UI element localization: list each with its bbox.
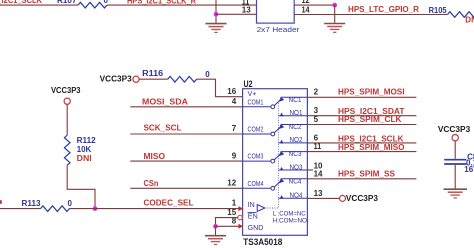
wire: [216, 13, 257, 15]
wire SCK_SCL: [130, 133, 242, 135]
ground: [324, 24, 345, 33]
net stub (clipped text, left edge): [0, 200, 2, 204]
svg-text:VCC3P3: VCC3P3: [51, 86, 81, 95]
svg-text:DNI: DNI: [465, 15, 474, 24]
svg-text:4: 4: [232, 97, 237, 106]
svg-text:16: 16: [227, 87, 236, 96]
svg-text:3: 3: [314, 106, 319, 115]
junction: [93, 206, 98, 211]
resistor R112 10K DNI: [64, 135, 70, 165]
switch 2 COM2: [243, 124, 308, 144]
svg-text:NO2: NO2: [290, 137, 303, 144]
svg-text:HPS_LTC_GPIO_R: HPS_LTC_GPIO_R: [348, 5, 419, 14]
wire NO1 pin 3: [307, 115, 416, 117]
wire NC1 pin 2: [307, 96, 416, 98]
svg-text:0: 0: [104, 0, 109, 5]
svg-text:R105: R105: [429, 6, 448, 15]
wire NO4 pin 13 to VCC: [307, 197, 339, 199]
buffer (control): [257, 205, 265, 212]
svg-text:COM4: COM4: [248, 179, 264, 188]
svg-text:14: 14: [314, 169, 323, 178]
capacitor C8: [444, 159, 466, 161]
svg-text:NC2: NC2: [289, 124, 302, 131]
svg-text:0: 0: [205, 70, 210, 79]
svg-text:R113: R113: [22, 199, 42, 208]
svg-text:IN: IN: [248, 200, 255, 209]
svg-text:COM1: COM1: [248, 97, 264, 106]
svg-text:DNI: DNI: [77, 154, 92, 163]
svg-text:GND: GND: [248, 223, 264, 232]
svg-text:14: 14: [302, 6, 310, 15]
wire NO2 pin 6: [307, 142, 416, 144]
pin 8 input arrow: [238, 224, 243, 229]
wire NC2 pin 5: [307, 124, 416, 126]
svg-text:MOSI_SDA: MOSI_SDA: [142, 97, 188, 106]
wire NC4 pin 14: [307, 178, 416, 180]
svg-text:HPS_SPIM_MISO: HPS_SPIM_MISO: [338, 143, 405, 152]
wire: [215, 0, 217, 23]
svg-text:HPS_SPIM_MOSI: HPS_SPIM_MOSI: [338, 88, 405, 97]
wire MISO: [130, 160, 242, 162]
wire to ground: [215, 226, 217, 235]
svg-text:COM2: COM2: [248, 125, 264, 134]
svg-text:R112: R112: [77, 136, 97, 145]
wire: [334, 5, 336, 23]
wire: [0, 208, 41, 210]
svg-text:11: 11: [314, 142, 322, 151]
svg-text:VCC3P3: VCC3P3: [438, 125, 471, 134]
pin 1 input arrow: [238, 206, 243, 211]
svg-text:NC1: NC1: [289, 97, 302, 104]
junction: [332, 3, 337, 8]
svg-text:VCC3P3: VCC3P3: [100, 74, 133, 83]
svg-text:2x7 Header: 2x7 Header: [257, 25, 300, 34]
svg-text:10K: 10K: [77, 145, 92, 154]
svg-text:16V: 16V: [464, 165, 474, 174]
ground: [206, 24, 227, 33]
svg-text:NO3: NO3: [290, 164, 303, 171]
wire: [107, 4, 257, 6]
svg-text:R116: R116: [142, 69, 164, 78]
svg-text:HPS_I2C1_SCLK: HPS_I2C1_SCLK: [0, 0, 42, 5]
svg-text:12: 12: [227, 179, 236, 188]
wire: [294, 14, 447, 16]
wire: [67, 165, 95, 208]
svg-text:13: 13: [314, 189, 323, 198]
svg-text:1: 1: [232, 199, 237, 208]
wire: [139, 78, 167, 80]
svg-text:NC4: NC4: [289, 178, 302, 185]
ground: [444, 189, 468, 198]
svg-text:H:COM=NO: H:COM=NO: [273, 218, 307, 225]
wire NC3 pin 11: [307, 151, 416, 153]
svg-text:VCC3P3: VCC3P3: [346, 194, 379, 203]
wire: [0, 4, 78, 6]
wire GND pin 8: [216, 225, 239, 227]
power VCC3P3 (pin 13): [340, 195, 346, 201]
svg-text:NO4: NO4: [290, 192, 303, 199]
svg-text:R107: R107: [57, 0, 77, 5]
svg-text:HPS_SPIM_CLK: HPS_SPIM_CLK: [338, 115, 402, 124]
switch 1 COM1: [243, 97, 308, 117]
svg-text:HPS_SPIM_SS: HPS_SPIM_SS: [338, 170, 396, 179]
svg-text:TS3A5018: TS3A5018: [243, 237, 282, 247]
junction: [214, 12, 219, 17]
svg-text:12: 12: [302, 0, 310, 5]
svg-text:5: 5: [314, 115, 319, 124]
wire: [197, 79, 243, 97]
header 2x7 box: [257, 0, 295, 23]
svg-text:L :COM=NC: L :COM=NC: [273, 211, 306, 218]
wire: [294, 4, 335, 6]
svg-text:13: 13: [242, 6, 252, 15]
svg-text:HPS_I2C1_SCLK_R: HPS_I2C1_SCLK_R: [127, 0, 196, 5]
wire MOSI_SDA: [130, 106, 242, 108]
svg-text:9: 9: [232, 151, 237, 160]
svg-text:0: 0: [68, 199, 73, 208]
wire CSn: [130, 187, 242, 189]
svg-text:NC3: NC3: [289, 151, 302, 158]
svg-text:COM3: COM3: [248, 152, 264, 161]
svg-text:CSn: CSn: [144, 179, 159, 188]
svg-text:SCK_SCL: SCK_SCL: [144, 123, 182, 132]
svg-text:2: 2: [314, 88, 319, 97]
EN bubble pin 15: [238, 215, 243, 220]
svg-text:NO1: NO1: [290, 110, 303, 117]
svg-text:MISO: MISO: [144, 152, 166, 161]
svg-text:6: 6: [314, 134, 319, 143]
ground: [205, 236, 226, 245]
dashed control line: [265, 102, 279, 209]
wire EN to ground: [216, 218, 238, 227]
switch 3 COM3: [243, 151, 308, 171]
svg-text:7: 7: [232, 124, 237, 133]
svg-text:CODEC_SEL: CODEC_SEL: [144, 198, 194, 207]
pin 10 stub: [307, 169, 313, 171]
switch 4 COM4: [243, 178, 308, 199]
wire: [454, 164, 456, 189]
wire: [454, 141, 456, 159]
wire CODEC_SEL to pin 1: [70, 208, 243, 210]
junction: [213, 224, 218, 229]
wire: [66, 105, 68, 136]
IC U2 box: [243, 89, 308, 236]
